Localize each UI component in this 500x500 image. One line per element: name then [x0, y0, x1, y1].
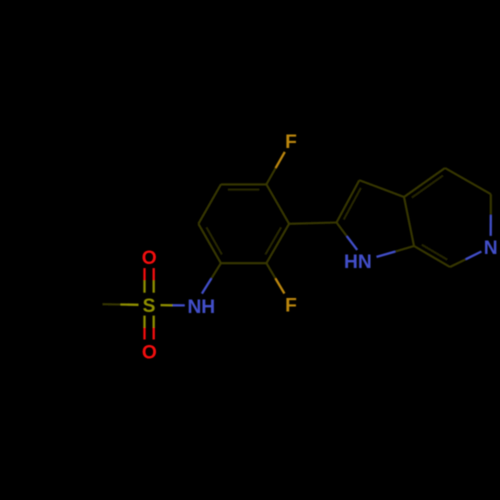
- bond C2-F (bottom fluorine): [266, 263, 284, 293]
- double-bond inner line C2=C3: [265, 227, 281, 254]
- double-bond inner line C7'=C7a': [422, 245, 448, 260]
- bond C2'=C3' (pyrrole): [337, 180, 360, 222]
- bond C3a'-C7a' (ring fusion): [404, 197, 414, 246]
- bond C7'-C7a' (pyridine): [414, 246, 450, 267]
- bond S-CH3 (methyl): [103, 303, 139, 306]
- bond C1-N (to sulfonamide NH): [202, 263, 221, 293]
- bond C4'-C5' (pyridine): [445, 168, 491, 194]
- bond C2-C3 (phenyl): [266, 224, 289, 263]
- bond C1-C2 (phenyl): [221, 262, 267, 264]
- svg-text:O: O: [142, 248, 157, 269]
- bond C3a'-C4' (pyridine): [404, 168, 445, 197]
- bond C3'-C3a' (pyrrole): [359, 180, 404, 197]
- svg-text:NH: NH: [187, 297, 215, 318]
- bond C3-C2' (aryl link): [289, 223, 336, 224]
- svg-text:F: F: [285, 296, 297, 317]
- bond N-S (sulfonamide): [161, 304, 185, 307]
- double-bond inner line C3a'=C4': [412, 176, 443, 198]
- svg-text:HN: HN: [344, 252, 372, 273]
- bond N1'-C7a' (pyrrole): [377, 246, 415, 257]
- bond C4-F (top fluorine): [266, 152, 284, 185]
- double-bond inner line C2'=C3': [344, 188, 361, 220]
- bond C5'-N6' (pyridine): [490, 194, 492, 236]
- S=O upper double bond (two parallel lines, red O half / olive S half): [145, 268, 154, 293]
- bond C6-C1 (phenyl): [198, 224, 221, 263]
- bond C2'-N1' (pyrrole): [337, 223, 358, 250]
- svg-text:S: S: [143, 296, 156, 317]
- bond C4-C5 (phenyl): [221, 183, 267, 185]
- double-bond inner line C4=C5: [228, 189, 260, 191]
- bond N6'-C7' (pyridine): [450, 252, 481, 268]
- bond C5-C6 (phenyl): [198, 184, 221, 223]
- svg-text:N: N: [484, 238, 498, 259]
- svg-text:F: F: [285, 132, 297, 153]
- bond C3-C4 (phenyl): [266, 184, 289, 223]
- svg-text:O: O: [142, 343, 157, 364]
- S=O lower double bond (two parallel lines, olive S half / red O half): [145, 316, 154, 340]
- double-bond inner line C6=C1: [206, 227, 222, 254]
